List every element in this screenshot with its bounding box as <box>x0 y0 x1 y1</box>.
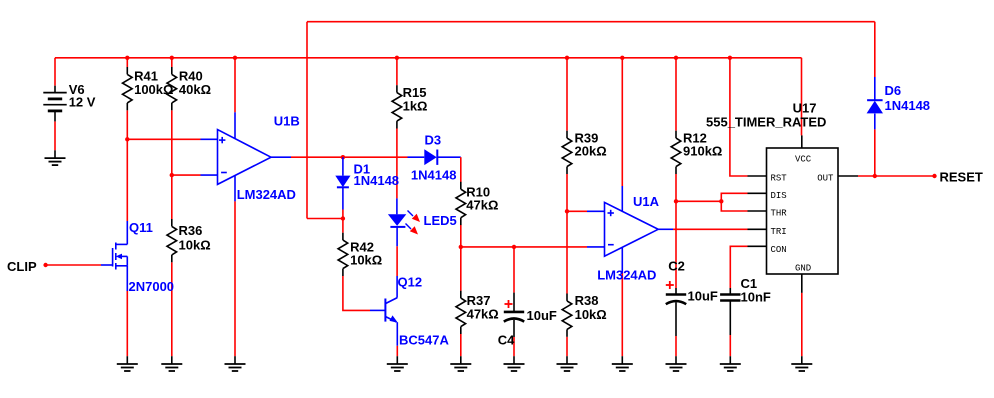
pin label TRI <box>771 227 787 237</box>
ground under V6 <box>45 150 66 165</box>
wire U1A + input <box>567 210 605 212</box>
resistor R40 <box>167 67 177 110</box>
label D1 <box>354 161 371 176</box>
resistor R38 <box>562 294 572 337</box>
label 20k&#937; <box>575 143 607 158</box>
wire C2 bottom <box>675 336 677 356</box>
wire R40 top lead <box>171 58 173 67</box>
pin label THR <box>771 209 788 219</box>
svg-text:U1B: U1B <box>274 114 300 129</box>
ground under Q12 <box>387 356 408 371</box>
node D1 anode junction <box>341 155 345 159</box>
label CLIP <box>7 259 37 274</box>
wire R15 bottom to LED5 <box>396 129 398 215</box>
ground under R37 <box>450 356 471 371</box>
wire R41 bottom to node <box>126 110 128 139</box>
svg-text:OUT: OUT <box>817 173 834 183</box>
label BC547A <box>399 333 449 348</box>
node DIS/THR split junction <box>719 199 723 203</box>
wire to U1A - input <box>461 246 605 248</box>
pin label OUT <box>817 173 834 183</box>
resistor R39 <box>562 131 572 174</box>
wire THR pin <box>721 201 747 211</box>
wire C2 top <box>675 201 677 288</box>
label D6 <box>885 83 902 98</box>
ground under C1 <box>720 356 741 371</box>
node R15 rail junction <box>395 56 399 60</box>
node R12/C2/DIS-THR junction <box>674 199 678 203</box>
svg-text:U17: U17 <box>793 101 817 116</box>
label 1k&#937; <box>403 99 428 114</box>
capacitor C2 <box>666 288 686 336</box>
label LM324AD U1B <box>237 187 296 202</box>
node D1/R42 junction <box>341 216 345 220</box>
wire C4 bottom <box>513 337 515 356</box>
label V6 <box>69 82 85 97</box>
wire R39 top <box>566 58 568 131</box>
transistor Q12 <box>370 298 398 323</box>
label 1N4148 D3 <box>411 168 457 183</box>
wire D6 anode <box>874 114 876 176</box>
ground under C2 <box>666 356 687 371</box>
label 47k&#937; R37 <box>467 306 499 321</box>
wire D1 cathode <box>342 187 344 218</box>
wire U1B V- pin <box>234 176 236 356</box>
label 1N4148 D1 <box>354 173 400 188</box>
node OUT/D6 junction <box>873 174 877 178</box>
wire 555 GND <box>801 274 803 356</box>
node R41/Q11/U1B+ junction <box>125 137 129 141</box>
label R12 <box>683 131 707 146</box>
diode D6 <box>867 100 883 113</box>
wire CON pin to C1 <box>730 246 747 288</box>
wire U1A V+ pin <box>621 58 623 212</box>
resistor R10 <box>456 182 466 225</box>
wire R12 top <box>675 58 677 131</box>
wire to DIS/THR split <box>676 200 721 202</box>
label C1 <box>741 276 758 291</box>
label 1N4148 D6 <box>885 98 931 113</box>
svg-text:910kΩ: 910kΩ <box>683 143 722 158</box>
svg-text:LM324AD: LM324AD <box>237 187 296 202</box>
wire R39 bottom <box>566 174 568 211</box>
svg-text:47kΩ: 47kΩ <box>467 306 499 321</box>
wire CLIP to Q11 gate <box>46 264 101 266</box>
svg-text:2N7000: 2N7000 <box>129 279 175 294</box>
label R41 <box>134 68 158 83</box>
label C4 <box>498 333 515 348</box>
svg-text:Q11: Q11 <box>129 220 153 235</box>
node R12 rail junction <box>674 56 678 60</box>
label R15 <box>403 85 427 100</box>
wire U1B V+ pin <box>234 58 236 139</box>
svg-text:CON: CON <box>771 245 787 255</box>
node R39/R38/U1A+ junction <box>565 209 569 213</box>
label RESET <box>940 170 983 185</box>
wire LED5 cathode to Q12 collector <box>396 227 398 298</box>
wire R38 top <box>566 211 568 293</box>
wire R40 bottom to node <box>171 110 173 175</box>
svg-text:20kΩ: 20kΩ <box>575 143 607 158</box>
label 910k&#937; <box>683 143 722 158</box>
wire U1A output to TRI pin <box>658 228 747 230</box>
svg-text:D3: D3 <box>425 133 442 148</box>
svg-text:D6: D6 <box>885 83 902 98</box>
op-amp U1B <box>201 130 272 185</box>
pin label DIS <box>771 191 787 201</box>
label R36 <box>179 223 203 238</box>
wire vertical from top rail down to R42 node <box>306 22 308 219</box>
ground under C4 <box>504 356 525 371</box>
ground under U1B rail <box>225 356 246 371</box>
svg-text:1N4148: 1N4148 <box>354 173 400 188</box>
ground under R38 <box>557 356 578 371</box>
svg-text:Q12: Q12 <box>398 275 423 290</box>
label R42 <box>350 239 374 254</box>
resistor R42 <box>338 233 348 276</box>
wire C4 top <box>513 247 515 293</box>
svg-text:1N4148: 1N4148 <box>885 98 931 113</box>
diode D3 <box>408 149 438 165</box>
svg-text:40kΩ: 40kΩ <box>179 82 211 97</box>
wire main +12V rail <box>55 57 802 59</box>
IC U17 555 timer box <box>767 148 839 274</box>
wire R37 top <box>460 247 462 291</box>
label R38 <box>575 293 599 308</box>
svg-text:10kΩ: 10kΩ <box>350 253 382 268</box>
label U17 <box>793 101 817 116</box>
node R40/R36/U1B- junction <box>170 173 174 177</box>
wire C1 bottom <box>729 335 731 356</box>
node C4 junction <box>512 245 516 249</box>
label U1B <box>274 114 300 129</box>
label 100k&#937; <box>134 82 173 97</box>
ground under Q11 <box>117 356 138 371</box>
node CLIP terminal <box>43 263 47 267</box>
LED LED5 <box>388 211 420 235</box>
svg-text:C2: C2 <box>668 259 685 274</box>
wire Q12 emitter to ground <box>396 322 398 356</box>
svg-text:C4: C4 <box>498 333 515 348</box>
resistor R41 <box>123 67 133 110</box>
wire Q11 source <box>126 266 128 356</box>
label 47k&#937; R10 <box>466 197 498 212</box>
label 10k&#937; R36 <box>179 237 211 252</box>
node R41 rail junction <box>125 56 129 60</box>
svg-text:DIS: DIS <box>771 191 787 201</box>
capacitor C1 <box>720 288 740 335</box>
label Q12 <box>398 275 423 290</box>
svg-text:10kΩ: 10kΩ <box>575 307 607 322</box>
battery V6 <box>43 86 66 122</box>
label D3 <box>425 133 442 148</box>
label R10 <box>466 185 490 200</box>
pin label CON <box>771 245 787 255</box>
label LED5 <box>424 213 457 228</box>
wire U1B output <box>271 156 408 158</box>
node U1A power rail junction <box>620 56 624 60</box>
svg-text:TRI: TRI <box>771 227 787 237</box>
wire R36 bottom <box>171 262 173 356</box>
wire U1A V- pin <box>621 247 623 356</box>
svg-text:BC547A: BC547A <box>399 333 449 348</box>
wire 555 VCC <box>801 58 803 148</box>
label R40 <box>179 68 203 83</box>
label 2N7000 <box>129 279 175 294</box>
svg-text:LED5: LED5 <box>424 213 457 228</box>
ground under U1A rail <box>612 356 633 371</box>
wire D6 cathode <box>874 22 876 100</box>
label 555_TIMER_RATED <box>706 115 826 130</box>
wire R42 top <box>342 219 344 233</box>
node RESET terminal <box>932 174 936 178</box>
svg-text:U1A: U1A <box>633 194 660 209</box>
svg-text:THR: THR <box>771 209 788 219</box>
wire battery V6 top <box>54 58 56 86</box>
pin label GND <box>795 264 811 274</box>
label 10k&#937; R42 <box>350 253 382 268</box>
transistor Q11 <box>101 243 127 270</box>
label Q11 <box>129 220 153 235</box>
node R39 rail junction <box>565 56 569 60</box>
label C2 plus <box>666 281 674 289</box>
wire R10 bottom <box>460 225 462 247</box>
label 40k&#937; <box>179 82 211 97</box>
diode D1 <box>335 176 350 188</box>
wire DIS pin <box>721 193 747 201</box>
wire R36 top <box>171 175 173 219</box>
svg-text:RESET: RESET <box>940 170 983 185</box>
capacitor C4 <box>504 293 524 337</box>
wire U1B - input <box>172 174 201 176</box>
wire R42 bottom to Q12 base <box>343 276 370 310</box>
wire R37 bottom <box>460 334 462 356</box>
label 10nF C1 <box>741 290 771 305</box>
svg-text:1kΩ: 1kΩ <box>403 99 428 114</box>
node U1B power rail junction <box>233 56 237 60</box>
label 12 V <box>69 95 96 110</box>
label U1A <box>633 194 660 209</box>
resistor R37 <box>456 291 466 334</box>
svg-text:47kΩ: 47kΩ <box>466 197 498 212</box>
wire R12 bottom <box>675 174 677 201</box>
label C4 plus <box>505 300 513 308</box>
svg-text:10uF: 10uF <box>527 308 557 323</box>
wire Q11 drain <box>126 139 128 244</box>
555 left pin stubs <box>748 176 767 246</box>
label 10uF C2 <box>688 289 718 304</box>
wire D1 anode <box>342 157 344 175</box>
label 10k&#937; R38 <box>575 307 607 322</box>
pin label VCC <box>795 155 812 165</box>
ground under R36 <box>161 356 182 371</box>
wire R41 top lead <box>126 58 128 67</box>
wire OUT pin <box>838 175 935 177</box>
wire top feedback rail <box>307 21 875 23</box>
node R10/R37 junction <box>459 245 463 249</box>
label R39 <box>575 131 599 146</box>
resistor R36 <box>167 219 177 262</box>
svg-text:RST: RST <box>771 173 788 183</box>
svg-text:10kΩ: 10kΩ <box>179 237 211 252</box>
node RST rail junction <box>728 56 732 60</box>
pin label RST <box>771 173 788 183</box>
node R40 rail junction <box>170 56 174 60</box>
wire U1B + input <box>127 138 200 140</box>
svg-text:R36: R36 <box>179 223 203 238</box>
op-amp U1A <box>605 202 659 256</box>
svg-text:12 V: 12 V <box>69 95 96 110</box>
svg-text:10uF: 10uF <box>688 289 718 304</box>
wire battery V6 bottom <box>54 121 56 150</box>
resistor R12 <box>671 131 681 174</box>
svg-text:1N4148: 1N4148 <box>411 168 457 183</box>
label C2 <box>668 259 685 274</box>
svg-text:LM324AD: LM324AD <box>597 268 656 283</box>
svg-text:GND: GND <box>795 264 811 274</box>
label 10uF C4 <box>527 308 557 323</box>
svg-text:10nF: 10nF <box>741 290 771 305</box>
wire D3 cathode to R10 <box>438 157 461 182</box>
resistor R15 <box>392 85 402 128</box>
svg-text:VCC: VCC <box>795 155 812 165</box>
label LM324AD U1A <box>597 268 656 283</box>
wire horizontal into R42/D1 node <box>307 218 343 220</box>
ground under 555 <box>791 356 812 371</box>
wire R38 bottom <box>566 337 568 356</box>
wire R15 top <box>396 58 398 85</box>
svg-text:555_TIMER_RATED: 555_TIMER_RATED <box>706 115 826 130</box>
label R37 <box>467 293 491 308</box>
svg-text:CLIP: CLIP <box>7 259 37 274</box>
wire RST pin <box>730 58 748 176</box>
